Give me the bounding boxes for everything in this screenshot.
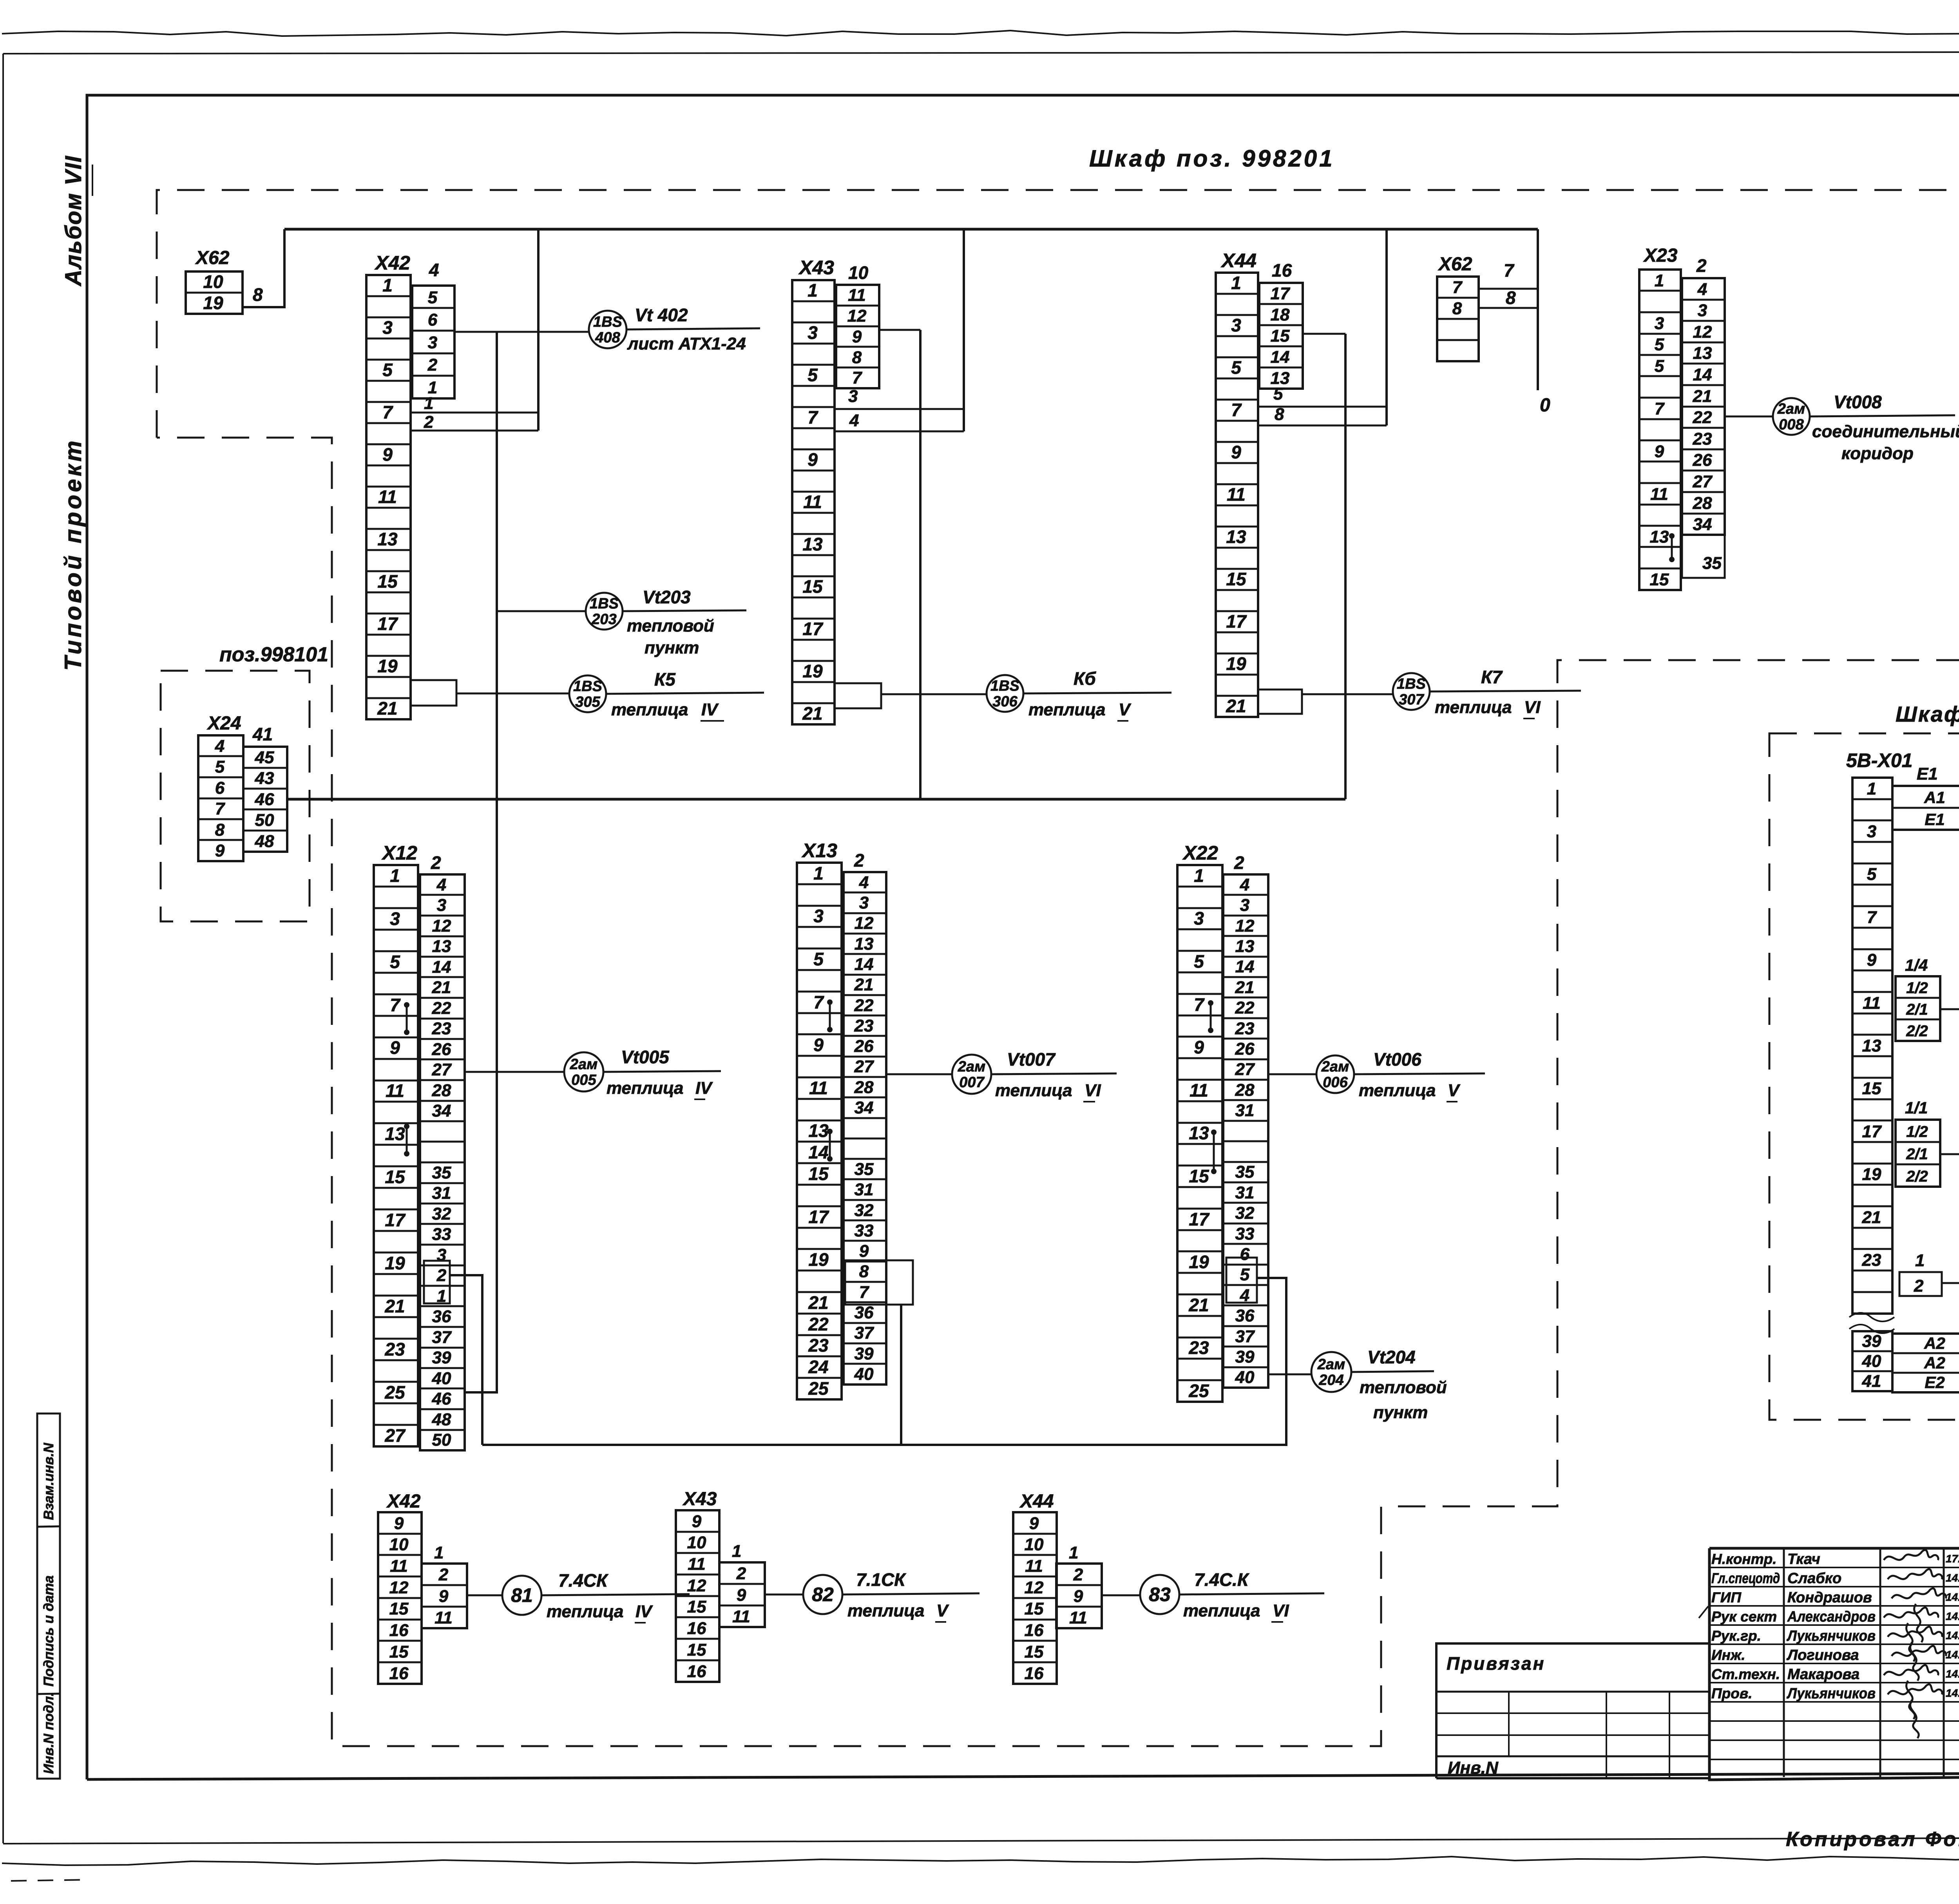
svg-text:17: 17 bbox=[808, 1207, 829, 1227]
svg-text:11: 11 bbox=[1190, 1080, 1208, 1100]
svg-text:7: 7 bbox=[1504, 260, 1515, 281]
svg-text:21: 21 bbox=[432, 978, 451, 997]
svg-text:6: 6 bbox=[428, 310, 438, 329]
svg-text:22: 22 bbox=[432, 999, 451, 1018]
svg-text:9: 9 bbox=[1655, 442, 1664, 461]
svg-text:14: 14 bbox=[1693, 365, 1712, 384]
cabinet 990101 dashed boundary bbox=[1769, 733, 1959, 1420]
terminal block X62 (left) bbox=[186, 271, 243, 314]
svg-text:50: 50 bbox=[255, 811, 274, 830]
svg-text:28: 28 bbox=[432, 1081, 451, 1100]
svg-text:17: 17 bbox=[1862, 1122, 1882, 1141]
svg-text:11: 11 bbox=[386, 1081, 404, 1101]
svg-text:Vt 402: Vt 402 bbox=[635, 305, 688, 325]
cable tag 82 (7.1CK) bbox=[803, 1575, 842, 1614]
svg-text:21: 21 bbox=[808, 1292, 828, 1313]
svg-text:Ткач: Ткач bbox=[1787, 1551, 1820, 1567]
cable tag 1BS/307 (K7) bbox=[1393, 673, 1430, 710]
svg-text:13: 13 bbox=[1226, 527, 1246, 547]
svg-text:12: 12 bbox=[855, 914, 874, 933]
svg-text:5: 5 bbox=[807, 365, 818, 385]
outer sheet border top line bbox=[3, 52, 1959, 54]
svg-text:39: 39 bbox=[432, 1348, 451, 1367]
svg-text:8: 8 bbox=[1275, 405, 1284, 424]
svg-text:40: 40 bbox=[432, 1369, 451, 1388]
svg-text:Подпись и дата: Подпись и дата bbox=[41, 1575, 56, 1687]
svg-text:пункт: пункт bbox=[645, 638, 699, 657]
tag Vt203 label line bbox=[623, 610, 746, 611]
svg-text:Слабко: Слабко bbox=[1787, 1570, 1841, 1587]
overbar IV bbox=[694, 1099, 705, 1100]
svg-text:А2: А2 bbox=[1924, 1334, 1945, 1352]
svg-text:15: 15 bbox=[1025, 1599, 1044, 1618]
wire X12 side27 to tag Vt005 bbox=[465, 1071, 564, 1073]
svg-text:0: 0 bbox=[1540, 395, 1550, 416]
svg-text:2: 2 bbox=[1234, 852, 1244, 873]
svg-text:V: V bbox=[1448, 1081, 1461, 1100]
svg-text:21: 21 bbox=[1862, 1208, 1881, 1227]
svg-text:Шкаф поз. 990101: Шкаф поз. 990101 bbox=[1896, 702, 1959, 726]
svg-text:15: 15 bbox=[1226, 569, 1247, 589]
svg-text:9: 9 bbox=[807, 449, 818, 470]
svg-text:14.01.86: 14.01.86 bbox=[1946, 1572, 1959, 1584]
svg-text:11: 11 bbox=[1025, 1557, 1043, 1576]
svg-text:1BS: 1BS bbox=[573, 678, 602, 695]
overbar V bbox=[935, 1621, 946, 1623]
svg-text:Инж.: Инж. bbox=[1711, 1647, 1745, 1663]
svg-text:11: 11 bbox=[1650, 485, 1668, 504]
svg-text:26: 26 bbox=[1693, 451, 1712, 470]
svg-text:Копировал Фомушкина: Копировал Фомушкина bbox=[1786, 1828, 1959, 1851]
svg-text:1: 1 bbox=[807, 280, 818, 300]
svg-text:18: 18 bbox=[1271, 305, 1290, 324]
svg-text:2: 2 bbox=[736, 1564, 746, 1583]
svg-text:1: 1 bbox=[1194, 865, 1204, 886]
bus riser for X43 bbox=[963, 229, 965, 431]
svg-text:Vt005: Vt005 bbox=[621, 1047, 670, 1067]
svg-text:81: 81 bbox=[511, 1584, 533, 1606]
svg-text:К5: К5 bbox=[654, 669, 676, 690]
svg-text:7: 7 bbox=[852, 368, 863, 387]
svg-text:4: 4 bbox=[1697, 280, 1707, 299]
svg-text:37: 37 bbox=[855, 1323, 874, 1343]
svg-text:16: 16 bbox=[1272, 260, 1292, 281]
svg-text:19: 19 bbox=[377, 656, 398, 676]
svg-text:25: 25 bbox=[808, 1378, 829, 1399]
svg-text:13: 13 bbox=[377, 529, 398, 549]
svg-text:7.4СК: 7.4СК bbox=[558, 1570, 608, 1591]
svg-text:21: 21 bbox=[854, 975, 874, 994]
5B-X01 lower cells 39,40,41 bbox=[1852, 1331, 1892, 1391]
svg-text:теплица: теплица bbox=[1435, 698, 1512, 717]
svg-text:33: 33 bbox=[432, 1225, 451, 1244]
svg-text:4: 4 bbox=[429, 260, 439, 280]
wire riser V1 (X42 side 3 down to X12 area) bbox=[465, 332, 497, 1392]
terminal block X24 bbox=[198, 735, 243, 861]
svg-text:1BS: 1BS bbox=[990, 678, 1019, 694]
svg-text:12: 12 bbox=[847, 306, 867, 326]
svg-text:2ам: 2ам bbox=[1777, 401, 1805, 417]
svg-text:9: 9 bbox=[852, 327, 862, 346]
svg-text:83: 83 bbox=[1149, 1584, 1171, 1605]
svg-text:Инв.N подл.: Инв.N подл. bbox=[41, 1692, 56, 1774]
svg-text:19: 19 bbox=[1226, 653, 1246, 674]
svg-text:2/2: 2/2 bbox=[1906, 1023, 1928, 1040]
svg-text:14.01.86: 14.01.86 bbox=[1946, 1591, 1959, 1603]
svg-text:К7: К7 bbox=[1481, 667, 1503, 687]
svg-text:17: 17 bbox=[1189, 1209, 1210, 1229]
tag K6 label line bbox=[1023, 693, 1171, 693]
svg-text:Пров.: Пров. bbox=[1711, 1685, 1752, 1701]
svg-text:9: 9 bbox=[692, 1512, 702, 1531]
svg-text:1/2: 1/2 bbox=[1906, 1123, 1928, 1140]
bus riser for X44 bbox=[1385, 229, 1388, 425]
svg-text:5: 5 bbox=[1655, 335, 1664, 354]
svg-text:6: 6 bbox=[1240, 1245, 1250, 1264]
svg-text:2ам: 2ам bbox=[1317, 1356, 1345, 1373]
svg-text:3: 3 bbox=[859, 893, 869, 912]
overbar VI bbox=[1271, 1621, 1283, 1623]
X23 side terminal column bbox=[1682, 278, 1725, 535]
svg-text:Е2: Е2 bbox=[1925, 1373, 1945, 1392]
svg-text:15: 15 bbox=[377, 571, 398, 592]
X12 pins 2/1 box bbox=[424, 1261, 450, 1303]
svg-text:7: 7 bbox=[1655, 399, 1665, 418]
svg-text:Взам.инв.N: Взам.инв.N bbox=[41, 1442, 56, 1520]
overbar IV bbox=[635, 1622, 646, 1623]
5B-X01 side cells A2/A2/E2 bbox=[1892, 1334, 1959, 1392]
svg-text:408: 408 bbox=[595, 329, 620, 346]
svg-text:Х13: Х13 bbox=[801, 840, 837, 862]
svg-text:Инв.N: Инв.N bbox=[1448, 1758, 1499, 1777]
svg-text:203: 203 bbox=[591, 611, 616, 628]
svg-text:13: 13 bbox=[432, 937, 451, 956]
svg-text:10: 10 bbox=[389, 1535, 409, 1554]
svg-text:5: 5 bbox=[390, 952, 400, 972]
svg-text:5: 5 bbox=[215, 757, 225, 776]
terminal block X44 (upper) bbox=[1216, 273, 1258, 717]
overbar of VII bbox=[92, 165, 93, 196]
X43 pin 21 stub bbox=[835, 683, 881, 708]
svg-text:37: 37 bbox=[432, 1328, 452, 1347]
terminal block X62 (right) bbox=[1437, 277, 1479, 361]
svg-text:15: 15 bbox=[687, 1640, 706, 1660]
svg-text:16: 16 bbox=[389, 1621, 409, 1640]
svg-text:1: 1 bbox=[732, 1542, 741, 1561]
terminal block X22 bbox=[1177, 865, 1222, 1402]
svg-text:теплица: теплица bbox=[1183, 1601, 1260, 1620]
svg-text:Vt203: Vt203 bbox=[643, 587, 691, 607]
svg-text:21: 21 bbox=[802, 703, 822, 724]
jumper X13 pin13 bbox=[829, 1131, 831, 1159]
svg-text:14: 14 bbox=[432, 957, 451, 977]
svg-text:39: 39 bbox=[855, 1344, 874, 1363]
svg-text:5: 5 bbox=[1194, 951, 1204, 972]
X44 side terminal column bbox=[1259, 283, 1303, 389]
svg-text:2: 2 bbox=[1073, 1565, 1083, 1584]
svg-text:3: 3 bbox=[807, 322, 818, 343]
svg-text:34: 34 bbox=[432, 1101, 451, 1120]
terminal block 5B-X01 bbox=[1852, 778, 1892, 1314]
svg-text:32: 32 bbox=[432, 1204, 451, 1223]
svg-text:2/2: 2/2 bbox=[1906, 1168, 1928, 1185]
svg-text:36: 36 bbox=[855, 1303, 874, 1322]
svg-text:17: 17 bbox=[385, 1210, 406, 1230]
svg-text:3: 3 bbox=[848, 387, 858, 406]
svg-text:9: 9 bbox=[382, 444, 393, 465]
svg-text:40: 40 bbox=[1235, 1368, 1255, 1387]
svg-text:36: 36 bbox=[1235, 1306, 1255, 1325]
svg-text:Логинова: Логинова bbox=[1786, 1647, 1859, 1663]
title block signatures table text bbox=[1711, 1550, 1959, 1738]
svg-text:5: 5 bbox=[382, 360, 393, 380]
terminal block X43 (upper) bbox=[792, 280, 835, 724]
svg-text:4: 4 bbox=[215, 737, 225, 756]
X44 pin 21 stub bbox=[1258, 690, 1302, 714]
long wire L1 to X22 bbox=[482, 1278, 1286, 1445]
svg-text:11: 11 bbox=[1069, 1608, 1087, 1627]
svg-text:Лукьянчиков: Лукьянчиков bbox=[1786, 1685, 1876, 1702]
cable tag 2am/007 (Vt007) bbox=[952, 1055, 991, 1094]
svg-text:лист АТХ1-24: лист АТХ1-24 bbox=[627, 334, 746, 353]
svg-text:8: 8 bbox=[253, 284, 263, 305]
svg-text:Х22: Х22 bbox=[1182, 842, 1218, 864]
svg-text:23: 23 bbox=[1862, 1251, 1881, 1270]
tag Vt402 label line bbox=[626, 328, 760, 329]
svg-text:ГИП: ГИП bbox=[1711, 1589, 1742, 1605]
wire X43 lower to tag 82 bbox=[765, 1594, 803, 1596]
svg-text:16: 16 bbox=[1025, 1621, 1044, 1640]
svg-text:23: 23 bbox=[432, 1019, 451, 1038]
svg-text:1BS: 1BS bbox=[593, 314, 622, 330]
X23 side cell 35 bbox=[1682, 535, 1725, 578]
svg-text:11: 11 bbox=[732, 1607, 750, 1626]
svg-text:3: 3 bbox=[428, 333, 437, 352]
svg-text:26: 26 bbox=[854, 1037, 874, 1056]
svg-text:7: 7 bbox=[1231, 400, 1242, 420]
svg-text:7: 7 bbox=[382, 402, 393, 422]
svg-text:23: 23 bbox=[1693, 429, 1712, 449]
svg-text:1: 1 bbox=[390, 865, 400, 886]
group cells 1/2 2/1 2/2 (pos.030101) bbox=[1896, 1120, 1940, 1187]
outer sheet border bottom line bbox=[3, 1837, 1959, 1844]
svg-text:11: 11 bbox=[848, 286, 866, 305]
svg-text:1/4: 1/4 bbox=[1905, 956, 1928, 974]
svg-text:10: 10 bbox=[1025, 1535, 1044, 1554]
drawing frame bottom edge bbox=[87, 1772, 1959, 1779]
svg-text:11: 11 bbox=[809, 1078, 828, 1098]
wire group2 to tag 2am/012 bbox=[1940, 1153, 1959, 1155]
svg-text:16: 16 bbox=[1025, 1664, 1044, 1683]
svg-text:Типовой проект: Типовой проект bbox=[60, 438, 86, 671]
svg-text:5: 5 bbox=[1240, 1265, 1250, 1284]
svg-text:2: 2 bbox=[1696, 255, 1707, 276]
svg-text:21: 21 bbox=[377, 698, 397, 719]
wire X62/19 to bus riser bbox=[243, 229, 284, 307]
svg-text:5: 5 bbox=[428, 288, 438, 307]
svg-text:А1: А1 bbox=[1924, 788, 1945, 807]
svg-text:1: 1 bbox=[813, 863, 824, 883]
long wire X24/46 across cabinet bbox=[287, 798, 1345, 801]
svg-text:45: 45 bbox=[255, 748, 274, 767]
riser X44 side 15 down to long wire bbox=[1344, 334, 1347, 799]
svg-text:35: 35 bbox=[855, 1160, 874, 1179]
svg-text:17: 17 bbox=[802, 619, 824, 639]
svg-text:7.4С.К: 7.4С.К bbox=[1194, 1569, 1249, 1590]
svg-text:Ст.техн.: Ст.техн. bbox=[1711, 1666, 1780, 1682]
tag Vt007 label line bbox=[991, 1073, 1117, 1074]
svg-text:11: 11 bbox=[1863, 994, 1881, 1013]
cable tag 1BS/306 (K6) bbox=[987, 675, 1023, 712]
wire X44 side 15 to riser bbox=[1303, 333, 1345, 335]
svg-text:13: 13 bbox=[808, 1120, 829, 1141]
svg-text:204: 204 bbox=[1318, 1372, 1343, 1388]
cable tag 1BS/408 (Vt402) bbox=[589, 311, 626, 348]
svg-text:10: 10 bbox=[848, 262, 869, 283]
wire X43 pin8 (label 4) bbox=[835, 431, 964, 433]
terminal block X23 bbox=[1639, 270, 1681, 590]
svg-text:22: 22 bbox=[808, 1314, 829, 1334]
svg-text:теплица: теплица bbox=[995, 1081, 1072, 1100]
svg-text:5: 5 bbox=[1231, 357, 1242, 378]
cable tag 81 (7.4CK) bbox=[502, 1576, 541, 1615]
svg-text:5: 5 bbox=[813, 949, 824, 969]
svg-text:28: 28 bbox=[1235, 1081, 1255, 1100]
X43 lower side box (pins 2,9,11) bbox=[719, 1562, 765, 1627]
wire X22 side27 to tag Vt006 bbox=[1268, 1073, 1316, 1075]
svg-text:Макарова: Макарова bbox=[1787, 1666, 1859, 1683]
svg-text:10: 10 bbox=[203, 271, 223, 292]
svg-text:1: 1 bbox=[382, 275, 393, 295]
jumper X22 pin13 bbox=[1213, 1132, 1215, 1171]
svg-text:4: 4 bbox=[436, 875, 446, 894]
svg-text:005: 005 bbox=[571, 1072, 596, 1088]
svg-text:Рук сект: Рук сект bbox=[1711, 1609, 1777, 1625]
svg-text:2: 2 bbox=[424, 413, 434, 432]
svg-text:1: 1 bbox=[1867, 779, 1876, 798]
X43 side terminal column bbox=[836, 285, 879, 388]
cable tag 2am/204 (Vt204) bbox=[1311, 1352, 1351, 1392]
svg-text:26: 26 bbox=[432, 1040, 451, 1059]
svg-text:27: 27 bbox=[1693, 472, 1713, 491]
svg-text:13: 13 bbox=[1650, 527, 1669, 547]
svg-text:4: 4 bbox=[859, 873, 869, 892]
svg-text:15: 15 bbox=[1025, 1642, 1044, 1661]
svg-text:Лукьянчиков: Лукьянчиков bbox=[1786, 1628, 1876, 1644]
svg-text:17: 17 bbox=[1271, 284, 1291, 303]
svg-text:1: 1 bbox=[1655, 271, 1664, 290]
wire X42 pin7 (label 1) bbox=[411, 412, 538, 414]
svg-text:1: 1 bbox=[1231, 273, 1241, 293]
svg-text:3: 3 bbox=[1698, 301, 1707, 320]
svg-text:7: 7 bbox=[390, 995, 401, 1015]
wire X62/8 to bus drop (label 8) bbox=[1479, 307, 1538, 309]
svg-text:Х12: Х12 bbox=[381, 842, 417, 864]
svg-text:3: 3 bbox=[437, 896, 446, 915]
svg-text:5: 5 bbox=[1655, 357, 1664, 376]
svg-text:19: 19 bbox=[203, 293, 223, 313]
svg-text:3: 3 bbox=[1655, 314, 1664, 333]
svg-text:008: 008 bbox=[1779, 416, 1804, 433]
wire X62/7 to bus drop (label 7) bbox=[1479, 288, 1538, 290]
svg-text:9: 9 bbox=[1029, 1514, 1039, 1533]
svg-text:31: 31 bbox=[855, 1180, 874, 1199]
svg-text:Vt007: Vt007 bbox=[1007, 1049, 1056, 1070]
svg-text:9: 9 bbox=[215, 841, 225, 860]
svg-text:13: 13 bbox=[1235, 937, 1255, 956]
svg-text:306: 306 bbox=[992, 693, 1018, 710]
svg-text:3: 3 bbox=[382, 317, 393, 338]
svg-text:46: 46 bbox=[255, 790, 274, 809]
svg-text:IV: IV bbox=[701, 700, 719, 719]
svg-text:27: 27 bbox=[384, 1425, 406, 1446]
svg-text:23: 23 bbox=[1235, 1019, 1255, 1038]
svg-text:Х42: Х42 bbox=[374, 252, 410, 274]
svg-text:1: 1 bbox=[434, 1543, 444, 1562]
svg-text:16: 16 bbox=[687, 1662, 706, 1681]
svg-text:3: 3 bbox=[390, 909, 400, 929]
svg-text:34: 34 bbox=[855, 1098, 874, 1117]
jumper X12 pin13 bbox=[406, 1126, 408, 1154]
svg-text:15: 15 bbox=[389, 1642, 409, 1661]
svg-text:3: 3 bbox=[813, 906, 824, 926]
svg-text:14: 14 bbox=[808, 1142, 828, 1162]
svg-text:1BS: 1BS bbox=[590, 595, 619, 612]
svg-text:2ам: 2ам bbox=[1321, 1059, 1349, 1075]
svg-text:14.01.86: 14.01.86 bbox=[1946, 1610, 1959, 1622]
wire V1 branch to tag Vt203 bbox=[497, 610, 586, 612]
svg-text:10: 10 bbox=[687, 1533, 706, 1552]
svg-text:тепловой: тепловой bbox=[1360, 1378, 1447, 1397]
svg-text:21: 21 bbox=[1693, 387, 1712, 406]
wire X13 box to long wire L1 bbox=[900, 1305, 902, 1445]
svg-text:48: 48 bbox=[255, 832, 274, 851]
wire X43 stub to tag K6 bbox=[881, 693, 987, 695]
wire X43 pin7 (label 3) bbox=[835, 408, 964, 410]
svg-text:23: 23 bbox=[808, 1335, 829, 1356]
svg-text:12: 12 bbox=[389, 1578, 409, 1597]
svg-text:23: 23 bbox=[854, 1016, 874, 1035]
svg-text:14.01.86: 14.01.86 bbox=[1946, 1629, 1959, 1642]
svg-text:17: 17 bbox=[377, 614, 398, 634]
svg-text:14: 14 bbox=[1235, 957, 1255, 976]
svg-text:3: 3 bbox=[1867, 822, 1876, 841]
terminal block X12 bbox=[374, 865, 418, 1446]
svg-text:5В-Х01: 5В-Х01 bbox=[1846, 749, 1913, 771]
overbar V bbox=[1447, 1101, 1457, 1102]
svg-text:12: 12 bbox=[432, 916, 451, 936]
svg-text:А2: А2 bbox=[1924, 1354, 1945, 1372]
svg-text:Х43: Х43 bbox=[682, 1489, 717, 1509]
svg-text:37: 37 bbox=[1235, 1327, 1255, 1346]
svg-text:007: 007 bbox=[959, 1074, 985, 1091]
svg-text:25: 25 bbox=[384, 1382, 406, 1403]
svg-text:VI: VI bbox=[1085, 1081, 1101, 1100]
svg-text:2: 2 bbox=[1914, 1276, 1924, 1296]
5B-X01 pin-2 box bbox=[1899, 1272, 1942, 1296]
terminal block X13 bbox=[797, 863, 842, 1399]
svg-text:35: 35 bbox=[1235, 1162, 1255, 1182]
svg-text:Х43: Х43 bbox=[798, 257, 834, 279]
tag Vt204 label line bbox=[1351, 1371, 1434, 1372]
svg-text:35: 35 bbox=[1702, 554, 1722, 573]
svg-text:Х42: Х42 bbox=[386, 1491, 421, 1512]
svg-text:Х62: Х62 bbox=[195, 248, 230, 268]
svg-text:7: 7 bbox=[859, 1283, 870, 1302]
svg-text:Х23: Х23 bbox=[1643, 245, 1678, 266]
wire group1 to tag 2am/011 bbox=[1940, 1008, 1959, 1010]
svg-text:Е1: Е1 bbox=[1917, 764, 1938, 784]
